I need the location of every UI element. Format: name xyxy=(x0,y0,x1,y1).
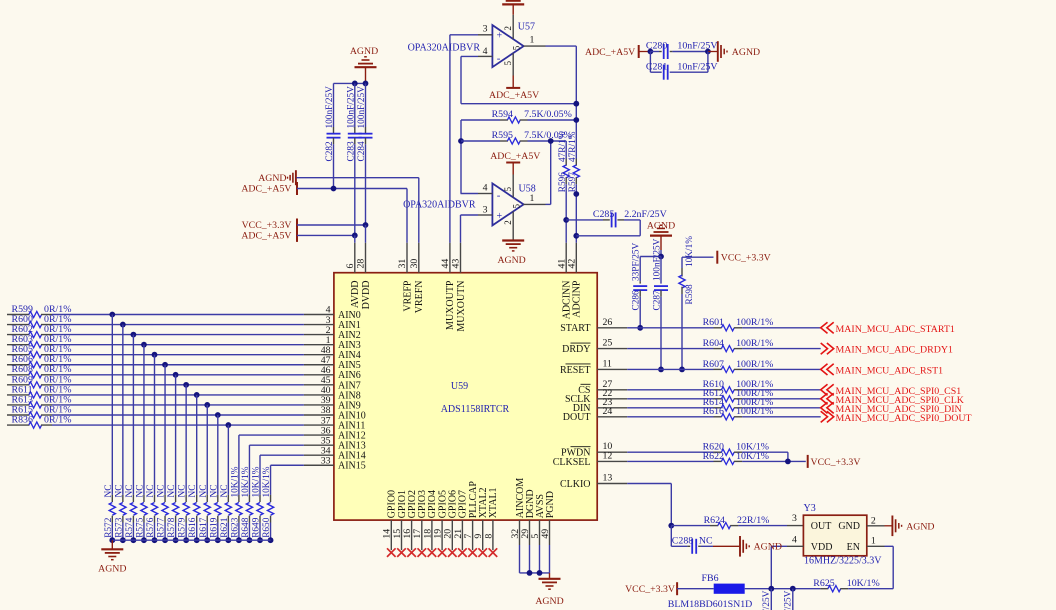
svg-text:1: 1 xyxy=(871,536,876,547)
svg-text:100nF/25V: 100nF/25V xyxy=(346,86,356,129)
svg-text:AGND: AGND xyxy=(350,46,378,57)
svg-text:AGND: AGND xyxy=(906,521,934,532)
svg-text:EN: EN xyxy=(847,542,860,553)
svg-text:100nF/25V: 100nF/25V xyxy=(784,590,794,610)
svg-text:AIN15: AIN15 xyxy=(338,461,366,472)
svg-text:10K/1%: 10K/1% xyxy=(252,466,262,497)
svg-text:AGND: AGND xyxy=(535,596,563,607)
svg-text:R619: R619 xyxy=(209,517,219,537)
svg-text:5: 5 xyxy=(511,204,521,209)
svg-text:R604: R604 xyxy=(703,338,724,349)
svg-text:C288: C288 xyxy=(672,535,693,546)
svg-text:MAIN_MCU_ADC_START1: MAIN_MCU_ADC_START1 xyxy=(836,324,955,335)
svg-text:R622: R622 xyxy=(703,451,724,462)
svg-text:2.2nF/25V: 2.2nF/25V xyxy=(624,209,667,220)
svg-text:R577: R577 xyxy=(157,517,167,537)
svg-text:100nF/25V: 100nF/25V xyxy=(325,86,335,129)
svg-text:VDD: VDD xyxy=(811,542,833,553)
svg-text:MAIN_MCU_ADC_RST1: MAIN_MCU_ADC_RST1 xyxy=(836,365,944,376)
svg-text:+: + xyxy=(497,31,503,42)
svg-text:R576: R576 xyxy=(146,517,156,537)
svg-text:R572: R572 xyxy=(104,517,114,537)
svg-text:MAIN_MCU_ADC_SPI0_DOUT: MAIN_MCU_ADC_SPI0_DOUT xyxy=(836,413,972,424)
svg-text:NC: NC xyxy=(209,485,219,498)
svg-text:10K/1%: 10K/1% xyxy=(241,466,251,497)
svg-text:ADC_+A5V: ADC_+A5V xyxy=(489,90,539,101)
svg-text:100nF/25V: 100nF/25V xyxy=(762,590,772,610)
svg-text:100nF/25V: 100nF/25V xyxy=(653,238,663,281)
svg-text:22R/1%: 22R/1% xyxy=(737,515,769,526)
svg-text:33: 33 xyxy=(321,455,331,466)
svg-text:AGND: AGND xyxy=(497,255,525,266)
svg-text:NC: NC xyxy=(157,485,167,498)
svg-text:5: 5 xyxy=(503,61,513,66)
svg-text:NC: NC xyxy=(699,535,713,546)
svg-text:10nF/25V: 10nF/25V xyxy=(677,61,718,72)
svg-text:PGND: PGND xyxy=(545,491,556,518)
svg-text:13: 13 xyxy=(603,473,613,484)
svg-text:ADCINP: ADCINP xyxy=(572,280,583,318)
svg-text:R616: R616 xyxy=(188,517,198,537)
svg-text:3: 3 xyxy=(483,204,488,215)
svg-text:CLKSEL: CLKSEL xyxy=(553,457,591,468)
svg-text:NC: NC xyxy=(146,485,156,498)
svg-text:XTAL1: XTAL1 xyxy=(488,487,499,518)
svg-text:100R/1%: 100R/1% xyxy=(736,338,773,349)
svg-text:R601: R601 xyxy=(703,317,724,328)
svg-text:MUXOUTN: MUXOUTN xyxy=(456,281,467,332)
svg-text:AGND: AGND xyxy=(98,564,126,575)
svg-text:VCC_+3.3V: VCC_+3.3V xyxy=(625,584,675,595)
svg-text:100R/1%: 100R/1% xyxy=(736,406,773,417)
svg-text:100nF/25V: 100nF/25V xyxy=(357,86,367,129)
svg-text:2: 2 xyxy=(503,26,513,31)
svg-text:33PF/25V: 33PF/25V xyxy=(632,242,642,281)
svg-text:12: 12 xyxy=(603,450,613,461)
svg-text:AGND: AGND xyxy=(258,173,286,184)
svg-text:R623: R623 xyxy=(230,517,240,537)
svg-text:R596: R596 xyxy=(558,172,568,192)
svg-text:OUT: OUT xyxy=(811,521,832,532)
svg-text:BLM18BD601SN1D: BLM18BD601SN1D xyxy=(668,599,753,610)
svg-text:R573: R573 xyxy=(114,517,124,537)
svg-text:NC: NC xyxy=(125,485,135,498)
svg-text:START: START xyxy=(560,323,590,334)
svg-text:MAIN_MCU_ADC_DRDY1: MAIN_MCU_ADC_DRDY1 xyxy=(836,345,953,356)
svg-text:C287: C287 xyxy=(653,290,663,310)
svg-text:ADC_+A5V: ADC_+A5V xyxy=(585,47,635,58)
svg-text:U57: U57 xyxy=(518,22,535,33)
svg-text:CLKIO: CLKIO xyxy=(560,479,591,490)
svg-text:C285: C285 xyxy=(593,209,614,220)
svg-text:OPA320AIDBVR: OPA320AIDBVR xyxy=(408,42,481,53)
svg-text:GND: GND xyxy=(838,521,860,532)
svg-text:R598: R598 xyxy=(685,284,695,304)
svg-text:NC: NC xyxy=(104,485,114,498)
svg-text:NC: NC xyxy=(178,485,188,498)
svg-text:R578: R578 xyxy=(167,517,177,537)
svg-text:VREFN: VREFN xyxy=(414,281,425,314)
svg-text:24: 24 xyxy=(603,406,613,417)
svg-text:2: 2 xyxy=(503,220,513,225)
svg-text:NC: NC xyxy=(167,485,177,498)
svg-text:8: 8 xyxy=(483,534,494,539)
svg-text:11: 11 xyxy=(603,358,613,369)
svg-text:R650: R650 xyxy=(262,517,272,537)
svg-text:R625: R625 xyxy=(813,578,834,589)
svg-text:AGND: AGND xyxy=(732,47,760,58)
svg-text:+: + xyxy=(497,211,503,222)
svg-text:4: 4 xyxy=(483,46,488,57)
svg-text:NC: NC xyxy=(135,485,145,498)
svg-text:4: 4 xyxy=(483,182,488,193)
svg-text:VREFP: VREFP xyxy=(402,280,413,312)
svg-text:R621: R621 xyxy=(220,517,230,537)
svg-text:NC: NC xyxy=(188,485,198,498)
svg-text:MUXOUTP: MUXOUTP xyxy=(445,280,456,330)
svg-text:3: 3 xyxy=(483,23,488,34)
svg-text:R648: R648 xyxy=(241,517,251,537)
svg-text:OPA320AIDBVR: OPA320AIDBVR xyxy=(403,200,476,211)
svg-text:47R/1%: 47R/1% xyxy=(568,131,578,162)
svg-text:16MHZ/3225/3.3V: 16MHZ/3225/3.3V xyxy=(804,556,882,567)
svg-text:R575: R575 xyxy=(135,517,145,537)
svg-text:AGND: AGND xyxy=(754,542,782,553)
svg-text:25: 25 xyxy=(603,338,613,349)
svg-text:43: 43 xyxy=(451,259,462,269)
svg-text:R595: R595 xyxy=(492,130,513,141)
svg-text:R617: R617 xyxy=(199,517,209,537)
svg-text:5: 5 xyxy=(503,187,513,192)
svg-text:R597: R597 xyxy=(568,172,578,192)
svg-text:30: 30 xyxy=(409,259,420,269)
svg-text:4: 4 xyxy=(792,535,797,546)
svg-text:NC: NC xyxy=(199,485,209,498)
svg-text:NC: NC xyxy=(114,485,124,498)
svg-text:AVDD: AVDD xyxy=(350,281,361,309)
svg-text:DVDD: DVDD xyxy=(361,281,372,310)
svg-text:0R/1%: 0R/1% xyxy=(44,414,71,425)
svg-text:C286: C286 xyxy=(632,290,642,310)
svg-text:ADC_+A5V: ADC_+A5V xyxy=(241,231,291,242)
svg-text:R649: R649 xyxy=(252,517,262,537)
svg-text:47R/1%: 47R/1% xyxy=(558,131,568,162)
svg-text:31: 31 xyxy=(397,259,408,269)
svg-text:VCC_+3.3V: VCC_+3.3V xyxy=(721,253,771,264)
svg-text:C280: C280 xyxy=(646,41,667,52)
svg-text:DOUT: DOUT xyxy=(563,412,591,423)
svg-text:ADS1158IRTCR: ADS1158IRTCR xyxy=(441,404,510,415)
svg-text:-: - xyxy=(497,190,501,202)
svg-text:5: 5 xyxy=(512,45,522,50)
svg-text:R836: R836 xyxy=(12,414,33,425)
svg-text:ADC_+A5V: ADC_+A5V xyxy=(241,184,291,195)
svg-text:-: - xyxy=(497,53,501,65)
svg-text:U59: U59 xyxy=(451,381,468,392)
svg-text:VCC_+3.3V: VCC_+3.3V xyxy=(242,220,292,231)
svg-text:R579: R579 xyxy=(178,517,188,537)
svg-text:NC: NC xyxy=(220,485,230,498)
svg-text:49: 49 xyxy=(540,529,551,539)
svg-text:C281: C281 xyxy=(646,61,667,72)
svg-text:R607: R607 xyxy=(703,359,724,370)
svg-text:6: 6 xyxy=(345,264,356,269)
svg-text:ADC_+A5V: ADC_+A5V xyxy=(490,151,540,162)
svg-text:2: 2 xyxy=(871,515,876,526)
svg-text:100R/1%: 100R/1% xyxy=(736,359,773,370)
svg-text:R616: R616 xyxy=(703,406,724,417)
svg-text:10K/1%: 10K/1% xyxy=(847,578,880,589)
svg-text:10K/1%: 10K/1% xyxy=(262,466,272,497)
svg-text:Y3: Y3 xyxy=(804,503,816,514)
svg-text:44: 44 xyxy=(440,259,451,269)
svg-text:R574: R574 xyxy=(125,517,135,537)
svg-text:VCC_+3.3V: VCC_+3.3V xyxy=(811,457,861,468)
svg-text:FB6: FB6 xyxy=(702,573,719,584)
svg-text:R624: R624 xyxy=(704,515,725,526)
svg-text:DRDY: DRDY xyxy=(562,344,590,355)
svg-text:10K/1%: 10K/1% xyxy=(685,236,695,267)
svg-text:3: 3 xyxy=(792,513,797,524)
svg-text:R594: R594 xyxy=(492,109,513,120)
svg-text:10K/1%: 10K/1% xyxy=(230,466,240,497)
svg-text:42: 42 xyxy=(567,259,578,269)
svg-text:1: 1 xyxy=(530,34,535,45)
svg-text:1: 1 xyxy=(530,193,535,204)
svg-text:10nF/25V: 10nF/25V xyxy=(677,41,718,52)
svg-text:100R/1%: 100R/1% xyxy=(736,317,773,328)
svg-text:7.5K/0.05%: 7.5K/0.05% xyxy=(524,109,572,120)
svg-text:26: 26 xyxy=(603,317,613,328)
svg-text:28: 28 xyxy=(356,259,367,269)
svg-text:RESET: RESET xyxy=(560,365,591,376)
